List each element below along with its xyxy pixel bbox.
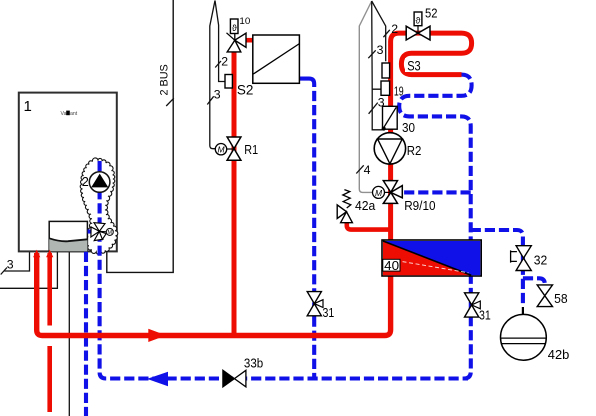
svg-text:ϑ: ϑ	[416, 16, 421, 26]
wire blue from small exchanger down to return main	[300, 79, 314, 87]
sensor box upper (flow sensor)	[382, 63, 390, 78]
svg-text:33b: 33b	[244, 355, 263, 370]
svg-text:19: 19	[394, 83, 404, 98]
node tick 2 right	[383, 30, 389, 37]
pump 4 / R2	[374, 133, 405, 164]
svg-text:3: 3	[377, 43, 384, 57]
svg-text:S2: S2	[237, 82, 254, 97]
wire drain line from tank to bottom edge	[68, 251, 70, 416]
valve 31 right (with drain)	[465, 293, 481, 317]
wire blue stub tank to 4way valve	[88, 229, 92, 233]
svg-text:ant: ant	[70, 111, 78, 117]
wire red branch to safety valve 42a	[347, 223, 391, 230]
wire red supply main from boiler to exchanger 40	[37, 253, 391, 336]
valve 52 thermostatic	[406, 26, 430, 40]
wire blue return from tank to bottom edge	[84, 252, 88, 416]
sensor box 19	[381, 81, 390, 95]
wire red cold feed from tank down	[47, 253, 52, 412]
svg-text:30: 30	[402, 120, 415, 135]
svg-text:2: 2	[221, 55, 228, 69]
pump 2 (boiler internal)	[89, 172, 110, 193]
node eBUS tick	[166, 98, 174, 106]
svg-text:42a: 42a	[355, 198, 376, 213]
gravity brake 30	[382, 106, 398, 130]
sensor box 10 with thermostat glyph	[230, 19, 238, 34]
svg-text:3: 3	[7, 258, 14, 272]
safety valve 42a	[337, 190, 352, 223]
expansion vessel 42b	[501, 307, 547, 360]
label S3	[405, 58, 423, 74]
flow arrow blue (return)	[147, 372, 168, 387]
svg-text:10: 10	[239, 16, 250, 27]
valve 4-way (boiler internal)	[91, 223, 113, 241]
wire cable 3 from boiler bottom-left	[4, 251, 29, 271]
check valve 33b	[223, 370, 246, 387]
svg-text:42b: 42b	[548, 347, 570, 362]
svg-text:2: 2	[391, 22, 398, 36]
Vaillant logo	[61, 111, 78, 117]
wire blue branch to valve 58	[523, 278, 545, 287]
wire red stub diverter to small exchanger	[242, 38, 254, 43]
wire blue branch to valve 32 and vessel	[471, 230, 523, 307]
wire cable from tank to left edge	[0, 251, 57, 288]
svg-text:M: M	[375, 188, 383, 198]
svg-text:58: 58	[554, 291, 568, 306]
svg-text:52: 52	[425, 5, 438, 20]
svg-text:40: 40	[384, 259, 399, 273]
wire cable to upper sensor	[372, 1, 386, 61]
svg-text:R9/10: R9/10	[404, 199, 435, 213]
wire cable to sensor 19 and brake 30	[372, 1, 383, 130]
node cable-3 tick	[1, 268, 7, 275]
valve thermostatic diverter (below 10)	[227, 33, 247, 52]
svg-text:M: M	[217, 145, 225, 155]
svg-text:ϑ: ϑ	[232, 23, 237, 33]
svg-text:2 BUS: 2 BUS	[158, 64, 170, 95]
node tick 3 left	[207, 96, 213, 104]
wire blue through pump 2 down to bottom main	[100, 161, 468, 379]
sensor box 52 with thermostat glyph	[414, 12, 422, 33]
wire eBUS cable from boiler to top edge	[107, 0, 173, 272]
wire cable bundle left: to actuator R1	[210, 1, 216, 149]
wire blue coil S3 lower half	[399, 75, 471, 240]
svg-text:31: 31	[323, 305, 335, 320]
flow arrow red (supply)	[148, 329, 166, 342]
valve 58 fill/drain	[537, 285, 552, 307]
wire cable bundle left: to sensor S2	[215, 1, 225, 82]
wire blue branch to valve R9/10	[401, 190, 471, 194]
heat exchanger (small, DHW)	[253, 35, 300, 83]
svg-text:R2: R2	[407, 143, 422, 158]
node tick 3 upper right	[368, 50, 375, 58]
svg-text:4: 4	[364, 163, 371, 177]
boiler internal pump circuit cloud	[80, 158, 118, 254]
svg-text:31: 31	[479, 307, 491, 322]
sensor S2 on riser	[225, 75, 232, 89]
valve R1 motorized	[215, 137, 241, 160]
valve R9/10 motorized 3-way	[373, 181, 403, 204]
svg-text:3: 3	[214, 88, 221, 102]
svg-text:32: 32	[534, 252, 548, 267]
boiler 1 outline	[19, 93, 117, 252]
condensate tank in boiler	[49, 221, 87, 251]
node tick 2 left	[215, 61, 221, 68]
node tick 3 lower right	[369, 103, 378, 114]
svg-text:Va: Va	[61, 111, 67, 117]
svg-text:2: 2	[82, 175, 89, 189]
valve 31 left (with drain)	[307, 292, 323, 316]
svg-text:S3: S3	[407, 59, 421, 74]
wire red riser exchanger 40 to coil S3	[391, 33, 472, 240]
heat exchanger 40 (red/blue)	[382, 240, 481, 276]
svg-text:M: M	[108, 230, 113, 236]
svg-text:1: 1	[24, 98, 32, 115]
wire blue main return corner up to exchanger 40	[464, 276, 471, 379]
wire red riser to valve R1 and diverter	[232, 45, 237, 336]
wire cable bundle right: grey cable to actuator R9/10	[359, 1, 372, 192]
node tick 4 right	[356, 165, 363, 173]
svg-text:R1: R1	[244, 142, 258, 157]
valve 32 with cap	[511, 246, 532, 271]
